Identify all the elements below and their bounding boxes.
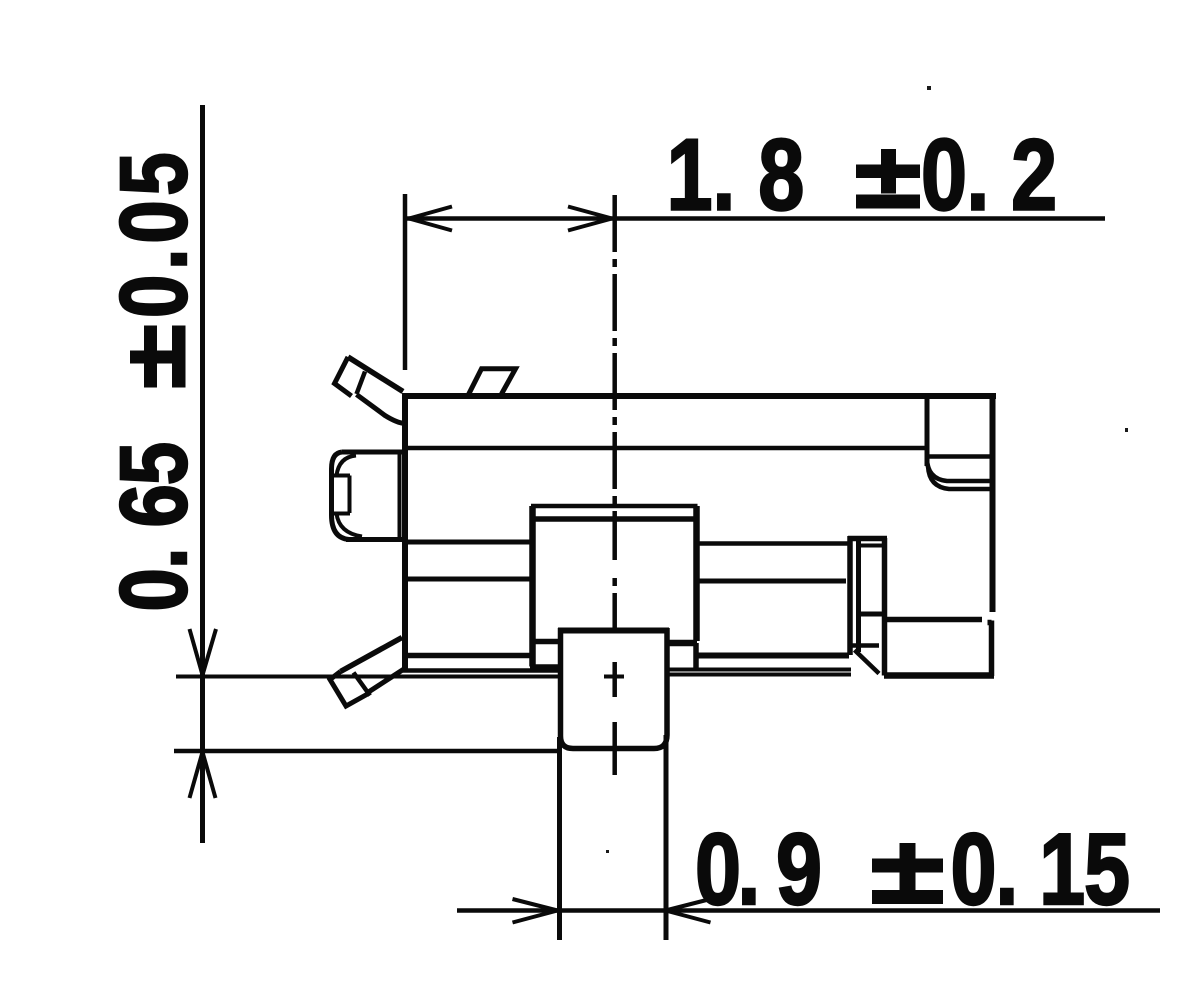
body top inner line <box>405 446 927 451</box>
dimension text 0.15 (bottom) <box>951 812 1131 926</box>
svg-text:1. 8: 1. 8 <box>667 118 805 232</box>
bottom-left foot arm top edge <box>341 638 403 672</box>
right terminal inner line <box>857 612 882 617</box>
speck dot right <box>1125 428 1128 432</box>
svg-text:0. 9: 0. 9 <box>695 812 822 926</box>
bottom-left foot bend line <box>354 673 371 696</box>
center pin outline <box>561 628 668 749</box>
left extension/dimension vertical line <box>200 105 205 843</box>
left terminal inner wall <box>398 452 402 540</box>
left terminal inner bottom arc <box>337 514 363 537</box>
bottom dim arrow left-pointing <box>666 899 711 923</box>
bottom edge right of pin lower <box>666 673 851 677</box>
left terminal inner slot right <box>348 476 352 514</box>
central block bottom right segment <box>668 640 697 647</box>
internal line mid-right y581 <box>697 579 846 584</box>
central block top line 1 <box>531 504 698 509</box>
svg-text:0. 65: 0. 65 <box>101 442 207 612</box>
top dim arrow right <box>568 207 612 231</box>
internal line upper-right y543.5 <box>698 541 850 546</box>
right terminal bottom cap <box>851 643 879 648</box>
left terminal inner slot top <box>333 474 350 478</box>
pin right extension line <box>664 735 669 940</box>
centerline (dashed) <box>612 195 617 775</box>
arrow up (0.65 dim, lower) <box>190 752 216 798</box>
dimension text 1.8 (top) <box>667 118 805 232</box>
central block bottom left segment <box>530 639 559 645</box>
right terminal left edge inner <box>856 540 861 652</box>
dimension text 0.65 (left, rotated) <box>101 152 207 611</box>
body right edge lower <box>988 621 992 677</box>
seating plane line L1 <box>176 675 558 679</box>
dimension text 0.9 (bottom) <box>695 812 822 926</box>
bottom edge right of pin upper <box>666 668 851 672</box>
body left edge <box>402 393 408 672</box>
speck dot top <box>927 86 931 90</box>
svg-text:0. 2: 0. 2 <box>921 118 1057 232</box>
plus-minus symbol (top) <box>856 149 920 209</box>
top-left foot bend line <box>357 372 366 395</box>
central block left edge <box>529 506 536 667</box>
internal line lower-right y655.5 <box>696 653 849 659</box>
top dimension line 1.8 <box>406 216 1105 221</box>
svg-text:0.05: 0.05 <box>101 152 207 318</box>
top tab parallelogram <box>469 369 516 395</box>
bottom edge left of pin <box>403 668 559 673</box>
pin left extension line <box>557 737 562 940</box>
left terminal inner slot bottom <box>333 512 350 516</box>
dimension text 0.2 (top) <box>921 118 1057 232</box>
top-left foot arm top edge <box>348 357 403 392</box>
top-right step upper curve <box>927 458 991 481</box>
left terminal top edge <box>342 450 404 455</box>
top-right notch bottom <box>927 454 991 459</box>
center pin top edge <box>558 628 669 634</box>
right terminal left edge outer <box>847 536 853 655</box>
top-right step lower curve <box>928 466 991 489</box>
far right bottom edge <box>884 672 994 679</box>
top dim extension line <box>403 194 408 370</box>
internal line mid-left y579 <box>405 577 530 582</box>
top-left foot arm bottom edge <box>357 395 406 424</box>
left terminal bottom edge <box>346 537 404 542</box>
arrow down (0.65 dim, upper) <box>190 629 217 675</box>
center cross tick <box>604 675 624 679</box>
right terminal diagonal <box>855 650 880 674</box>
speck dot bottom <box>606 850 609 853</box>
central block right edge <box>693 506 700 641</box>
central block top line 2 <box>533 516 696 522</box>
central block left step <box>530 664 558 669</box>
right step vertical <box>693 643 699 669</box>
bottom-left foot pad <box>330 672 369 707</box>
internal line upper-left y542 <box>405 540 532 545</box>
top dim arrow left <box>409 207 452 231</box>
top-left foot pad <box>335 357 352 396</box>
right terminal top edge <box>848 536 887 542</box>
plus-minus symbol (bottom) <box>872 843 943 904</box>
bottom dimension line 0.9 <box>457 908 1160 913</box>
lower plane line L2 <box>174 749 559 754</box>
body right edge upper <box>990 396 996 612</box>
far right shelf line <box>886 617 982 623</box>
plus-minus symbol (left, rotated) <box>130 326 186 388</box>
right terminal right edge <box>882 538 888 676</box>
right terminal fold line <box>858 544 883 548</box>
body top edge <box>403 393 997 399</box>
bottom-left foot arm bottom edge <box>369 669 405 692</box>
left terminal inner top arc <box>337 456 357 476</box>
top-right notch vertical <box>925 396 930 466</box>
internal line lower-left y655.5 <box>404 653 531 659</box>
svg-text:0. 15: 0. 15 <box>951 812 1131 926</box>
left terminal outer contour <box>332 452 350 540</box>
bottom dim arrow right-pointing <box>513 899 558 923</box>
